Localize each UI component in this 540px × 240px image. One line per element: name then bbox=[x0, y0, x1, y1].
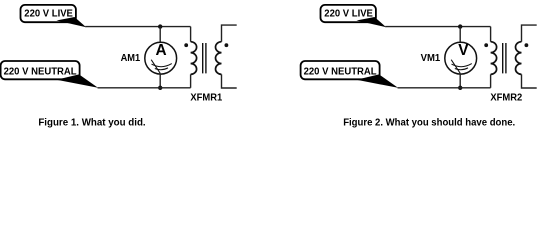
svg-text:220 V NEUTRAL: 220 V NEUTRAL bbox=[4, 66, 77, 77]
svg-text:220 V NEUTRAL: 220 V NEUTRAL bbox=[304, 66, 377, 77]
callout box 220 V LIVE bbox=[21, 5, 76, 22]
svg-text:Figure 1. What you did.: Figure 1. What you did. bbox=[38, 117, 146, 128]
junction node bottom bbox=[158, 86, 162, 90]
callout tail neutral bbox=[57, 74, 99, 87]
svg-text:VM1: VM1 bbox=[421, 53, 441, 64]
wire secondary bottom stub (fig2) bbox=[522, 74, 537, 88]
secondary winding (fig2) bbox=[516, 42, 522, 75]
svg-text:XFMR2: XFMR2 bbox=[490, 93, 522, 104]
wire primary top lead bbox=[190, 27, 192, 42]
wire primary bottom lead bbox=[190, 74, 192, 87]
wire primary top lead (fig2) bbox=[490, 27, 492, 42]
svg-text:A: A bbox=[155, 42, 166, 59]
transformer XFMR2 bbox=[484, 25, 536, 88]
svg-text:220 V LIVE: 220 V LIVE bbox=[24, 8, 73, 19]
phase dot secondary bbox=[225, 43, 229, 47]
svg-text:220 V LIVE: 220 V LIVE bbox=[324, 8, 373, 19]
wire neutral bottom bbox=[98, 87, 191, 89]
wire ammeter top lead bbox=[159, 27, 161, 43]
wire primary bottom lead (fig2) bbox=[490, 74, 492, 87]
svg-text:AM1: AM1 bbox=[121, 53, 141, 64]
svg-text:XFMR1: XFMR1 bbox=[190, 93, 222, 104]
phase dot primary (fig2) bbox=[484, 43, 488, 47]
wire voltmeter top lead bbox=[459, 27, 461, 43]
wire live top bbox=[85, 26, 190, 28]
primary winding (fig2) bbox=[491, 42, 497, 75]
wire voltmeter bottom lead bbox=[459, 74, 461, 88]
transformer XFMR1 bbox=[184, 25, 236, 88]
svg-text:V: V bbox=[458, 42, 469, 59]
junction node top bbox=[158, 24, 162, 28]
phase dot primary bbox=[184, 43, 188, 47]
wire live top (fig2) bbox=[385, 26, 490, 28]
callout box 220 V NEUTRAL (fig2) bbox=[301, 61, 380, 79]
svg-text:Figure 2. What you should have: Figure 2. What you should have done. bbox=[343, 117, 515, 128]
callout tail live (fig2) bbox=[357, 17, 387, 27]
wire secondary bottom stub bbox=[222, 74, 237, 88]
transformer core bbox=[203, 43, 206, 73]
wire secondary top stub bbox=[222, 25, 237, 42]
junction node bottom (fig2) bbox=[458, 86, 462, 90]
callout box 220 V LIVE (fig2) bbox=[321, 5, 376, 22]
wire secondary top stub (fig2) bbox=[522, 25, 537, 42]
phase dot secondary (fig2) bbox=[525, 43, 529, 47]
callout tail live bbox=[57, 17, 87, 27]
callout tail neutral (fig2) bbox=[357, 74, 399, 87]
wire ammeter bottom lead bbox=[159, 74, 161, 88]
junction node top (fig2) bbox=[458, 24, 462, 28]
wire neutral bottom (fig2) bbox=[398, 87, 491, 89]
primary winding bbox=[191, 42, 197, 75]
secondary winding bbox=[216, 42, 222, 75]
callout box 220 V NEUTRAL bbox=[1, 61, 80, 79]
voltmeter VM1 bbox=[445, 42, 477, 74]
transformer core (fig2) bbox=[503, 43, 506, 73]
ammeter AM1 bbox=[145, 42, 177, 74]
